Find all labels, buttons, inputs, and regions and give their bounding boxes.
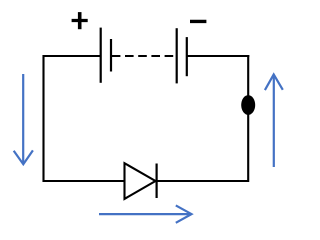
wire: top-left segment [43,55,101,57]
current arrow (right, upward) [265,74,283,167]
wire: top-right segment [187,55,250,57]
wire: bottom-right segment [157,180,249,182]
label - (negative terminal) [190,20,206,23]
label + (positive terminal) [72,12,88,29]
diode D1 cathode bar [156,164,158,199]
battery cell 1 positive plate (long) [100,28,102,83]
diode D1 triangle [125,163,156,199]
current arrow (bottom, rightward) [99,205,192,222]
wire: left side [42,55,44,182]
battery cell 1 negative plate (short) [110,39,112,72]
battery cell 2 negative plate (short) [186,37,188,76]
node dot on right wire [241,95,255,115]
battery cell 2 positive plate (long) [176,28,178,83]
wire: right side [247,55,249,182]
wire: bottom-left segment [43,180,125,182]
current arrow (left, downward) [14,74,33,164]
dashed link between battery cells [112,55,177,57]
